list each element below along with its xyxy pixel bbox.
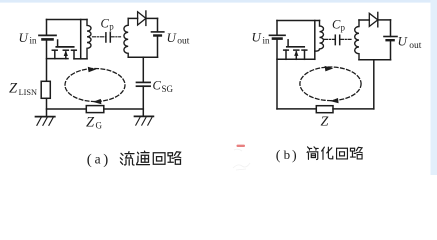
- wire: (a) drop to C_SG: [142, 57, 144, 82]
- wire: (b) right drop to loop rail: [373, 60, 375, 109]
- battery U_in (a) short plate: [43, 38, 53, 41]
- transistor Q2 gate stub (b): [287, 40, 289, 47]
- char 回: [153, 153, 165, 165]
- wire: (a) C_SG to ground: [142, 86, 144, 116]
- capacitor Cp right plate (b): [339, 35, 341, 44]
- transistor Q1 gate stub (a): [57, 40, 59, 47]
- wire: (a) output right side upper: [157, 18, 159, 31]
- diode D1 bar (a): [145, 11, 147, 25]
- wire: (a) ground rail left segment: [47, 108, 87, 110]
- caption (a) chinese 流通回路 drawn as strokes: [120, 151, 181, 165]
- capacitor C_SG top plate (a): [137, 81, 151, 83]
- loop arrow bottom (a): [93, 99, 102, 104]
- faint gray scribbles: [234, 149, 242, 151]
- battery U_out (b) short plate: [387, 39, 394, 41]
- svg-text:Z: Z: [9, 81, 18, 97]
- wire: (b) loop rail right segment: [333, 108, 374, 110]
- inductor L2 secondary winding (a): [124, 18, 128, 57]
- diode D2 bar (b): [377, 12, 379, 26]
- transistor Q2 body arrow (b): [294, 50, 298, 56]
- wire: (b) left rail below battery: [276, 39, 278, 109]
- transistor Q1 channel left segment (a): [52, 49, 57, 51]
- loop arrow top (a): [88, 67, 97, 73]
- transistor Q1 bulk lead with arrow stem (a): [65, 52, 67, 59]
- wire: (a) left rail upper: [46, 20, 48, 35]
- capacitor C_SG bottom plate (a): [137, 85, 151, 87]
- svg-text:G: G: [96, 121, 103, 131]
- svg-text:(: (: [276, 149, 281, 164]
- resistor Z_LISN box: [41, 81, 50, 98]
- transistor Q2 channel right segment (b): [302, 49, 307, 51]
- ground right hatches: [136, 117, 153, 126]
- wire: (b) input top wire: [277, 20, 320, 22]
- top blue edge stripe: [0, 0, 437, 3]
- transistor Q1 channel middle segment (a): [63, 49, 68, 51]
- svg-text:): ): [292, 149, 297, 164]
- battery U_out (a) short plate: [154, 34, 161, 36]
- wire: (a) output right side lower: [157, 36, 159, 58]
- char 路: [168, 152, 181, 165]
- svg-text:out: out: [177, 37, 190, 47]
- wire: (b) output right side upper: [390, 20, 392, 37]
- capacitor Cp left plate (a): [105, 33, 107, 42]
- wire: (a) primary left side: [80, 20, 82, 59]
- diode D2 triangle (b): [369, 13, 378, 26]
- right blue edge stripe: [431, 0, 437, 175]
- svg-text:in: in: [263, 36, 271, 46]
- inductor L3 primary winding (b): [315, 21, 324, 52]
- char 回: [337, 148, 348, 159]
- inductor L1 primary winding (a): [87, 20, 91, 59]
- capacitor Cp left plate (b): [334, 35, 336, 44]
- inductor L4 secondary winding (b): [355, 20, 359, 60]
- svg-text:p: p: [341, 23, 346, 33]
- transistor Q1 source lead (a): [54, 50, 56, 58]
- char 化: [322, 147, 333, 159]
- transistor Q1 drain lead (a): [73, 50, 75, 59]
- transistor Q2 channel left segment (b): [284, 49, 289, 51]
- svg-text:C: C: [153, 79, 162, 93]
- capacitor Cp right plate (a): [109, 33, 111, 42]
- capacitor Cp left dash-dot lead (b): [325, 38, 335, 40]
- capacitor Cp right dash-dot lead (b): [340, 38, 351, 40]
- current loop dashed ellipse (a): [65, 69, 125, 102]
- svg-text:out: out: [409, 41, 422, 51]
- transistor Q1 body arrow (a): [64, 50, 68, 56]
- svg-text:U: U: [252, 30, 263, 45]
- wire: (b) output right side lower: [390, 40, 392, 60]
- wire: (a) output top wire right part: [146, 17, 158, 19]
- wire: (a) Z_LISN to left ground: [46, 98, 48, 116]
- svg-text:LISN: LISN: [19, 88, 37, 97]
- transistor Q1 gate bar (a): [56, 46, 73, 48]
- wire: (b) output bottom wire: [359, 59, 391, 61]
- svg-text:SG: SG: [162, 84, 174, 94]
- transistor Q2 gate bar (b): [287, 46, 304, 48]
- caption (b) chinese 简化回路 drawn as strokes: [307, 147, 362, 160]
- battery U_in (b) short plate: [273, 37, 282, 40]
- svg-text:U: U: [19, 30, 30, 45]
- ground left bar: [36, 116, 55, 118]
- battery U_out (a) long plate: [152, 31, 164, 33]
- wire: (b) output top wire left part: [359, 19, 369, 21]
- wire: (a) source wire to left rail: [47, 58, 69, 60]
- svg-text:Z: Z: [86, 115, 95, 131]
- ground right bar: [135, 115, 154, 117]
- svg-text:U: U: [398, 34, 409, 49]
- svg-text:b: b: [284, 147, 291, 162]
- diode D1 triangle (a): [138, 12, 146, 25]
- transistor Q2 source lead (b): [285, 50, 287, 59]
- char 流: [120, 152, 134, 166]
- char 通: [137, 151, 150, 165]
- transistor Q1 channel right segment (a): [72, 49, 77, 51]
- loop arrow top (b): [325, 66, 334, 72]
- capacitor Cp left dash-dot lead (a): [93, 36, 106, 38]
- wire: (b) primary left side: [314, 21, 316, 60]
- resistor Z_G box: [86, 106, 104, 113]
- wire: (a) ground rail right segment: [104, 108, 144, 110]
- capacitor Cp right dash-dot lead (a): [111, 36, 121, 38]
- wire: (b) output top wire right part: [378, 19, 391, 21]
- battery U_out (b) long plate: [384, 36, 397, 38]
- wire: (b) bottom wire of input mesh: [277, 58, 315, 60]
- svg-text:(: (: [87, 152, 92, 168]
- svg-text:p: p: [109, 22, 114, 32]
- svg-text:): ): [103, 152, 108, 168]
- transistor Q2 channel middle segment (b): [294, 49, 299, 51]
- svg-text:U: U: [167, 30, 178, 45]
- wire: (a) input top wire: [47, 19, 88, 21]
- wire: (a) output top wire left part: [128, 17, 137, 19]
- wire: (a) left rail below battery: [46, 39, 48, 81]
- char 简: [307, 147, 318, 160]
- ground left hatches: [37, 117, 54, 126]
- current loop dashed ellipse (b): [300, 67, 361, 101]
- battery U_in (b) long plate: [270, 34, 286, 36]
- wire: (b) loop rail left segment: [277, 108, 316, 110]
- transistor Q2 drain lead (b): [304, 50, 306, 59]
- red artifact speck: [237, 145, 246, 147]
- svg-text:Z: Z: [321, 115, 329, 130]
- loop arrow bottom (b): [330, 98, 339, 103]
- svg-text:in: in: [30, 36, 38, 46]
- char 路: [350, 147, 362, 159]
- wire: (a) drain bottom wire to primary: [74, 58, 87, 60]
- transistor Q2 bulk lead with arrow stem (b): [295, 52, 297, 59]
- wire: (b) left rail upper: [276, 21, 278, 35]
- svg-text:a: a: [95, 152, 101, 167]
- wire: (a) output bottom wire: [128, 56, 157, 58]
- battery U_in (a) long plate: [39, 34, 56, 36]
- resistor Z box: [316, 106, 333, 113]
- svg-text:C: C: [101, 17, 110, 31]
